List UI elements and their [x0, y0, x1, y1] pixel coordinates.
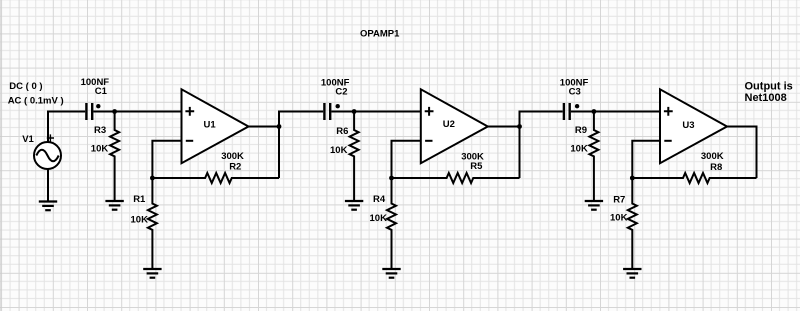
svg-text:10K: 10K — [610, 212, 628, 223]
wire V1 top to C1 — [48, 112, 85, 143]
svg-text:AC ( 0.1mV ): AC ( 0.1mV ) — [8, 96, 64, 107]
svg-text:DC ( 0 ): DC ( 0 ) — [9, 81, 42, 92]
svg-text:10K: 10K — [330, 145, 348, 156]
svg-text:C2: C2 — [335, 87, 347, 98]
capacitor C2 — [324, 103, 330, 120]
svg-text:R8: R8 — [710, 162, 722, 173]
svg-text:10K: 10K — [91, 144, 109, 155]
op-amp U3 — [660, 89, 727, 163]
ground below R3 — [105, 201, 123, 210]
junction U2 output — [517, 124, 522, 129]
op-amp U1 — [182, 89, 249, 163]
svg-text:U3: U3 — [682, 120, 694, 131]
left window edge line — [0, 0, 2, 311]
svg-text:R4: R4 — [373, 194, 386, 205]
voltage source V1 — [34, 134, 61, 169]
wire U1 output junction up to C2 — [279, 112, 323, 127]
ground below R7 — [623, 269, 641, 278]
node dot after C2 — [336, 104, 340, 108]
resistor R3 — [110, 112, 119, 202]
svg-text:R9: R9 — [575, 125, 587, 136]
svg-text:C1: C1 — [95, 86, 108, 97]
svg-text:C3: C3 — [569, 87, 581, 98]
junction C3/R9 — [592, 109, 597, 114]
wire U1 output to junction — [249, 126, 280, 128]
wire C3 to U3 + input — [571, 111, 660, 113]
ground below R6 — [345, 201, 363, 210]
resistor R2 feedback — [152, 173, 279, 183]
svg-text:R3: R3 — [94, 125, 106, 136]
junction feedback/R4 — [389, 176, 394, 181]
junction C2/R6 — [352, 109, 357, 114]
node dot after C1 — [96, 104, 100, 108]
wire U3 output to feedback right side — [727, 127, 757, 179]
wire U2 - input to feedback corner — [392, 141, 421, 178]
resistor R5 feedback — [392, 173, 520, 183]
svg-text:U1: U1 — [204, 119, 217, 130]
junction feedback/R1 — [150, 176, 155, 181]
op-amp U2 — [421, 89, 488, 163]
resistor R7 — [628, 178, 637, 269]
wire U1 - input to feedback corner — [152, 141, 181, 178]
svg-text:V1: V1 — [22, 134, 34, 145]
svg-text:Output is: Output is — [745, 80, 793, 92]
wire U2 output to junction — [488, 126, 520, 128]
svg-text:U2: U2 — [443, 119, 455, 130]
resistor R1 — [148, 178, 157, 269]
capacitor C3 — [564, 103, 570, 120]
resistor R9 — [589, 112, 598, 202]
junction feedback/R7 — [630, 176, 635, 181]
ground below R1 — [143, 269, 161, 278]
ground below R9 — [585, 201, 603, 210]
resistor R4 — [387, 178, 396, 269]
wire C2 to U2 + input — [331, 111, 420, 113]
wire V1 bottom to ground — [47, 169, 49, 202]
svg-text:Net1008: Net1008 — [745, 92, 787, 104]
svg-text:R6: R6 — [336, 126, 348, 137]
svg-text:R2: R2 — [229, 161, 241, 172]
svg-text:R1: R1 — [133, 194, 146, 205]
svg-text:OPAMP1: OPAMP1 — [360, 29, 400, 40]
junction U1 output — [277, 124, 282, 129]
resistor R6 — [350, 112, 359, 202]
node dot after C3 — [575, 104, 579, 108]
wire U2 output junction up to C3 — [520, 112, 563, 127]
svg-text:300K: 300K — [701, 151, 724, 162]
svg-text:R7: R7 — [613, 194, 625, 205]
resistor R8 feedback — [632, 173, 756, 183]
wire C1 to U1 + input — [93, 111, 181, 113]
ground below V1 — [39, 202, 57, 211]
wire feedback vertical right of R5 — [519, 127, 521, 179]
wire U3 - input to feedback corner — [632, 141, 660, 178]
capacitor C1 — [86, 103, 92, 120]
svg-text:R5: R5 — [470, 161, 483, 172]
junction C1/R3 — [112, 109, 117, 114]
svg-text:10K: 10K — [370, 213, 388, 224]
svg-text:10K: 10K — [570, 144, 588, 155]
ground below R4 — [382, 269, 400, 278]
wire feedback vertical right of R2 — [278, 127, 280, 179]
svg-text:10K: 10K — [131, 214, 149, 225]
